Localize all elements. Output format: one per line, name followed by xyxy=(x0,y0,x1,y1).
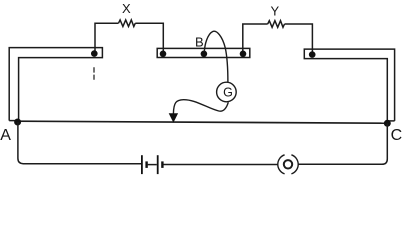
svg-text:B: B xyxy=(195,34,204,49)
left copper strip xyxy=(9,48,102,122)
wire: key to C xyxy=(298,123,387,164)
wire: bridge wire A to C xyxy=(18,121,388,123)
wire: galvanometer to jockey xyxy=(173,100,228,114)
right copper strip xyxy=(304,49,394,123)
node A xyxy=(14,119,21,126)
tick mark below left strip xyxy=(93,67,95,80)
wire: battery to key xyxy=(163,164,278,166)
wire: left strip up to X xyxy=(95,23,119,52)
jockey arrowhead xyxy=(170,114,178,122)
svg-text:G: G xyxy=(223,86,233,100)
wire: Y to right strip xyxy=(285,24,313,53)
middle copper strip xyxy=(157,48,250,57)
svg-text:Y: Y xyxy=(270,4,279,19)
key (plug key O) xyxy=(278,155,298,174)
resistor Y xyxy=(268,21,285,28)
battery (two cells) xyxy=(142,155,163,174)
galvanometer G xyxy=(217,82,237,102)
resistor X xyxy=(119,20,136,27)
terminal dot on right strip xyxy=(309,51,316,58)
terminal dot: middle strip right xyxy=(240,51,247,58)
terminal dot: middle strip left xyxy=(160,51,167,58)
svg-text:C: C xyxy=(391,127,403,144)
wire: battery inter-cell link xyxy=(148,164,157,166)
node C xyxy=(384,120,391,127)
wire: A down to bottom rail xyxy=(18,122,142,164)
svg-text:X: X xyxy=(122,1,131,16)
svg-text:A: A xyxy=(0,127,11,144)
wire: middle strip up to Y xyxy=(243,24,268,52)
wire: arc from node B to galvanometer xyxy=(204,31,228,82)
wire: outer right jog into node C xyxy=(388,120,395,122)
terminal dot: node B xyxy=(201,51,208,58)
terminal dot on left strip xyxy=(91,50,98,57)
wire: X to middle strip xyxy=(135,23,163,52)
wire: outer left jog into node A xyxy=(9,120,17,122)
